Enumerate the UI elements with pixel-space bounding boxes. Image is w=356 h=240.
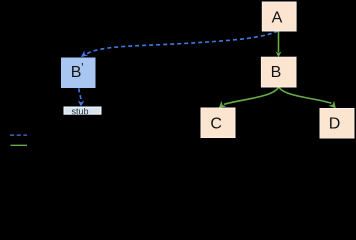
svg-text:A: A: [272, 9, 283, 26]
svg-text:': ': [81, 63, 83, 75]
svg-text:original: original: [32, 141, 61, 151]
svg-text:B: B: [71, 64, 82, 81]
svg-text:B: B: [271, 64, 282, 81]
svg-text:C: C: [210, 115, 222, 132]
svg-text:D: D: [329, 115, 341, 132]
svg-text:stub: stub: [71, 106, 88, 116]
svg-text:rebased: rebased: [32, 131, 65, 141]
